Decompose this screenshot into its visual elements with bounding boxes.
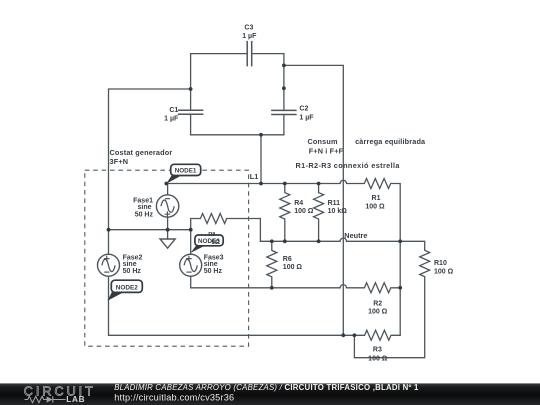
svg-text:C2: C2 bbox=[299, 105, 308, 112]
node flag NODE2 bbox=[108, 280, 143, 301]
wire Neutre bus with hop bbox=[260, 238, 400, 241]
label R11 bbox=[328, 200, 348, 215]
wire resistor R4 branch bbox=[280, 184, 290, 242]
label R1 bbox=[365, 195, 385, 210]
svg-text:1 µF: 1 µF bbox=[242, 33, 257, 40]
svg-text:Consum: Consum bbox=[308, 137, 338, 146]
wire resistor R10 branch bbox=[354, 241, 429, 357]
voltage source Fase1 bbox=[156, 195, 178, 217]
svg-text:R2: R2 bbox=[373, 300, 382, 307]
svg-text:LAB: LAB bbox=[66, 395, 85, 404]
label Costat generador 3F+N bbox=[110, 148, 173, 166]
svg-text:10 kΩ: 10 kΩ bbox=[328, 208, 348, 215]
svg-text:L1: L1 bbox=[250, 172, 259, 181]
wire resistor R6 branch bbox=[267, 241, 277, 287]
svg-text:100 Ω: 100 Ω bbox=[294, 208, 314, 215]
wire from C2 node right and down to R3 line bbox=[284, 65, 343, 335]
svg-text:100 Ω: 100 Ω bbox=[368, 309, 388, 316]
label Fase1 bbox=[133, 198, 153, 219]
wire left vertical from C1 feed down to generator bus bbox=[109, 89, 191, 230]
svg-text:sine: sine bbox=[123, 261, 137, 268]
svg-text:5Ω: 5Ω bbox=[212, 239, 220, 246]
label C1 bbox=[164, 107, 179, 123]
node flag NODE3 bbox=[191, 235, 224, 253]
wire Fase1 top lead bbox=[167, 184, 169, 195]
footer bar bbox=[0, 383, 540, 405]
wire Fase2 top lead bbox=[108, 230, 110, 255]
svg-text:C3: C3 bbox=[244, 24, 253, 31]
node flag NODE1 bbox=[166, 164, 201, 184]
svg-text:R1-R2-R3 connexió estrella: R1-R2-R3 connexió estrella bbox=[296, 161, 401, 170]
wire Fase3 top lead bbox=[190, 230, 192, 255]
wire from loop bottom to L1 bus bbox=[260, 135, 262, 184]
label R3 bbox=[368, 347, 388, 363]
svg-text:R1: R1 bbox=[372, 195, 381, 202]
svg-text:3F+N: 3F+N bbox=[110, 157, 129, 166]
svg-text:50 Hz: 50 Hz bbox=[135, 211, 154, 218]
wire capacitor loop right edge bbox=[283, 54, 285, 135]
capacitor C3 plates bbox=[247, 42, 252, 66]
wire capacitor loop left edge bbox=[190, 54, 192, 135]
svg-text:sine: sine bbox=[137, 204, 151, 211]
svg-text:R11: R11 bbox=[328, 200, 341, 207]
wire Fase1 bottom lead bbox=[167, 217, 169, 230]
svg-text:BLADIMIR CABEZAS ARROYO (CABEZ: BLADIMIR CABEZAS ARROYO (CABEZAS) / CIRC… bbox=[114, 383, 419, 392]
svg-text:1 µF: 1 µF bbox=[164, 116, 179, 123]
svg-text:càrrega equilibrada: càrrega equilibrada bbox=[355, 137, 426, 146]
svg-text:R4: R4 bbox=[294, 200, 303, 207]
svg-text:100 Ω: 100 Ω bbox=[283, 264, 303, 271]
wire Fase3 bottom bus with hop and resistor R2 bbox=[191, 276, 401, 293]
svg-text:F+N i F+F: F+N i F+F bbox=[309, 146, 344, 155]
label Fase3 bbox=[204, 254, 224, 275]
voltage source Fase3 bbox=[180, 254, 202, 276]
svg-text:http://circuitlab.com/cv35r36: http://circuitlab.com/cv35r36 bbox=[114, 392, 234, 402]
capacitor C2 plates bbox=[272, 110, 296, 114]
svg-text:50 Hz: 50 Hz bbox=[123, 268, 142, 275]
wire Fase2 bottom down to R3 line and resistor R3 bbox=[109, 276, 401, 340]
svg-text:Neutre: Neutre bbox=[344, 231, 367, 240]
wire ground lead bbox=[167, 230, 169, 239]
wire capacitor loop bottom edge bbox=[191, 134, 284, 136]
label R10 bbox=[434, 260, 454, 276]
voltage source Fase2 bbox=[98, 254, 120, 276]
svg-text:R3: R3 bbox=[373, 347, 382, 354]
svg-text:1 µF: 1 µF bbox=[299, 115, 314, 122]
wire resistor R8 path from node to Neutre bbox=[191, 214, 261, 242]
label R4 bbox=[294, 200, 314, 215]
svg-text:sine: sine bbox=[204, 261, 218, 268]
svg-text:R8: R8 bbox=[208, 232, 215, 238]
svg-text:C1: C1 bbox=[169, 107, 178, 114]
label R2 bbox=[368, 300, 388, 315]
wire capacitor loop top edge bbox=[191, 53, 284, 55]
capacitor C1 plates bbox=[179, 110, 203, 114]
wire L1 bus with hop and resistor R1 in series bbox=[166, 179, 400, 336]
dashed box Costat generador bbox=[85, 170, 249, 346]
svg-text:NODE1: NODE1 bbox=[175, 168, 197, 175]
label C3 bbox=[242, 24, 257, 40]
svg-text:R10: R10 bbox=[434, 260, 447, 267]
label Fase2 bbox=[123, 254, 143, 275]
svg-text:100 Ω: 100 Ω bbox=[365, 204, 385, 211]
wire generator bottom bus bbox=[109, 229, 191, 231]
svg-text:NODE2: NODE2 bbox=[116, 284, 138, 291]
label C2 bbox=[299, 105, 314, 121]
svg-text:100 Ω: 100 Ω bbox=[368, 356, 388, 363]
wire resistor R11 branch bbox=[314, 184, 324, 242]
ground bbox=[160, 239, 175, 248]
svg-text:R6: R6 bbox=[283, 256, 292, 263]
logo resistor-diode line bbox=[25, 396, 66, 402]
svg-text:100 Ω: 100 Ω bbox=[434, 269, 454, 276]
label Consum F+N i F+F bbox=[308, 137, 344, 155]
label R6 bbox=[283, 256, 303, 271]
svg-text:50 Hz: 50 Hz bbox=[204, 268, 223, 275]
